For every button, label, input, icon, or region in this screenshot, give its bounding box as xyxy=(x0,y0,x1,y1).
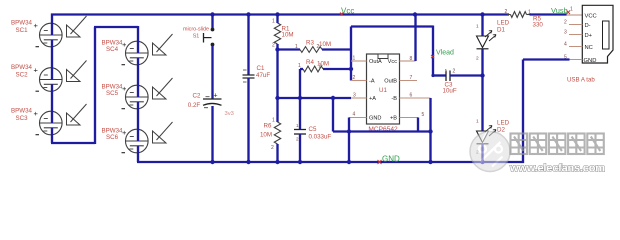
svg-text:D-: D- xyxy=(585,23,591,29)
op-amp U1 MCP6542 body xyxy=(367,54,400,124)
resistor R1 10M xyxy=(274,23,280,44)
capacitor C3 10uF xyxy=(446,71,450,82)
junction rail/pin8 xyxy=(413,12,417,16)
pin 6 stub xyxy=(400,97,431,99)
wire node down to R6 xyxy=(276,98,278,122)
svg-text:2: 2 xyxy=(272,43,275,49)
svg-text:Vusb: Vusb xyxy=(551,6,568,15)
junction C5/GND xyxy=(298,160,302,164)
svg-text:+B: +B xyxy=(390,116,397,122)
capacitor C5 0.033uF xyxy=(294,130,306,135)
svg-text:0.2F: 0.2F xyxy=(188,102,201,109)
wire rail down to pin8 xyxy=(414,15,416,62)
junction C5/+A xyxy=(298,96,302,100)
pin 5 stub xyxy=(400,117,419,119)
svg-text:47uF: 47uF xyxy=(256,72,270,79)
wire: SC1 top to Vcc rail corner xyxy=(51,14,53,25)
junction divider/+A row xyxy=(275,96,279,100)
wire OutA vertical x=351 xyxy=(350,27,352,81)
svg-text:3: 3 xyxy=(564,30,567,36)
svg-text:+: + xyxy=(122,128,127,137)
resistor R3 10M xyxy=(300,47,322,53)
wire C5 to GND xyxy=(299,134,301,162)
svg-text:1: 1 xyxy=(353,56,356,62)
svg-text:C5: C5 xyxy=(309,126,317,133)
svg-text:1: 1 xyxy=(476,24,479,30)
pin 2 stub xyxy=(351,80,367,82)
solar cell SC4 (BPW34) xyxy=(122,40,149,65)
svg-text:2: 2 xyxy=(564,20,567,26)
junction rail/R1 xyxy=(275,12,279,16)
svg-text:10M: 10M xyxy=(319,41,331,48)
junction C1/GND xyxy=(246,160,250,164)
light arrow icon for SC4 xyxy=(153,34,173,55)
wire under-IC horizontal xyxy=(333,130,431,132)
light arrow icon for SC2 xyxy=(67,61,87,82)
svg-text:OutA: OutA xyxy=(369,59,382,65)
wire R4/C5 vertical xyxy=(299,71,301,130)
svg-text:NC: NC xyxy=(585,45,593,51)
svg-text:R6: R6 xyxy=(264,123,272,130)
wire to C3 left xyxy=(433,74,446,76)
svg-text:C2: C2 xyxy=(193,93,201,100)
wire rail to R1 xyxy=(276,15,278,24)
junction horizontal xyxy=(428,129,432,133)
wire +A branch down x=333 xyxy=(332,98,334,132)
svg-text:2: 2 xyxy=(296,137,299,142)
svg-text:1: 1 xyxy=(295,44,298,50)
svg-text:7: 7 xyxy=(410,75,413,81)
wire: SC6 bottom to GND rail xyxy=(137,153,139,163)
svg-text:2: 2 xyxy=(271,145,274,151)
junction rail/C1 xyxy=(246,12,250,16)
pin 1 stub xyxy=(351,60,367,62)
svg-text:R4: R4 xyxy=(306,59,314,66)
pin 8 stub xyxy=(400,60,416,62)
svg-text:+A: +A xyxy=(369,96,376,102)
svg-text:2: 2 xyxy=(353,75,356,81)
wire: SC2-SC3 xyxy=(51,91,53,112)
wire: riser x=95 xyxy=(94,27,96,144)
svg-text:SC1: SC1 xyxy=(15,27,28,34)
svg-text:LED: LED xyxy=(497,20,510,27)
resistor R6 10M xyxy=(274,122,280,144)
svg-text:4: 4 xyxy=(564,42,567,48)
GND bottom rail xyxy=(137,161,524,163)
wire: SC5-SC6 xyxy=(137,109,139,130)
svg-text:BPW34: BPW34 xyxy=(11,64,33,71)
svg-text:2: 2 xyxy=(476,56,479,62)
svg-text:U1: U1 xyxy=(379,87,387,94)
wire rail to D1 xyxy=(481,15,483,37)
junction C2/GND xyxy=(210,160,214,164)
junction pin4/GND xyxy=(347,160,351,164)
svg-text:BPW34: BPW34 xyxy=(11,20,33,27)
solar cell SC2 (BPW34) xyxy=(34,66,63,92)
svg-text:VCC: VCC xyxy=(585,13,597,19)
svg-text:GND: GND xyxy=(369,116,381,122)
svg-text:10M: 10M xyxy=(260,132,272,139)
pin stub USB VCC xyxy=(567,14,583,16)
svg-text:SC3: SC3 xyxy=(15,115,28,122)
svg-text:+: + xyxy=(34,66,39,75)
top rail segment after R5 to USB xyxy=(530,13,567,15)
svg-text:0.033uF: 0.033uF xyxy=(309,134,332,141)
wire R3 to OutA vertical xyxy=(322,48,351,50)
wire R4 to vertical xyxy=(323,68,351,70)
svg-text:1: 1 xyxy=(476,119,479,125)
svg-text:www.elecfans.com: www.elecfans.com xyxy=(509,163,605,175)
wire C2 to GND rail xyxy=(211,106,213,162)
svg-text:SC2: SC2 xyxy=(15,71,28,78)
wire pin4 down xyxy=(348,118,350,163)
svg-text:+: + xyxy=(34,21,39,30)
wire: SC1-SC2 xyxy=(51,47,53,69)
watermark logo xyxy=(470,130,510,172)
junction rail/LED D1 xyxy=(480,12,484,16)
svg-text:SC5: SC5 xyxy=(106,90,119,97)
solar cell SC3 (BPW34) xyxy=(34,109,63,135)
switch S1 micro-slide xyxy=(204,28,215,47)
wire: SC4 top drop xyxy=(137,26,139,42)
svg-text:USB A tab: USB A tab xyxy=(567,77,595,84)
watermark chinese text xyxy=(511,134,604,155)
solar cell SC1 (BPW34) xyxy=(34,21,63,47)
wire switch to C2 xyxy=(211,46,213,100)
svg-text:D2: D2 xyxy=(497,127,505,134)
USB A tab connector J1 xyxy=(582,5,613,63)
svg-text:2: 2 xyxy=(505,9,508,15)
svg-text:SC4: SC4 xyxy=(106,46,119,53)
wire pin6 down to GND xyxy=(429,98,431,162)
svg-text:+: + xyxy=(34,109,39,118)
svg-text:OutB: OutB xyxy=(384,79,397,85)
wire R1 to node xyxy=(276,44,278,50)
svg-text:+: + xyxy=(122,84,127,93)
wire rail to C1 xyxy=(247,15,249,76)
solar cell SC6 (BPW34) xyxy=(122,128,149,153)
wire C5 node to R4 xyxy=(299,69,301,71)
svg-text:8: 8 xyxy=(410,56,413,62)
light arrow icon for SC3 xyxy=(67,104,87,125)
light arrow icon for SC1 xyxy=(67,16,87,37)
svg-text:10uF: 10uF xyxy=(443,88,457,95)
svg-text:1: 1 xyxy=(528,10,531,16)
junction R4/vertical xyxy=(349,67,353,71)
svg-text:micro-slide: micro-slide xyxy=(183,27,209,33)
junction pin4/horizontal xyxy=(347,129,351,133)
svg-text:330: 330 xyxy=(533,22,544,29)
svg-text:5: 5 xyxy=(422,112,425,118)
svg-text:6: 6 xyxy=(410,93,413,99)
capacitor C2 0.2F (polarized) xyxy=(203,93,222,108)
svg-text:2: 2 xyxy=(453,69,456,75)
wire C3 right to LED column xyxy=(450,74,483,76)
wire rail to switch S1 xyxy=(211,15,213,29)
wire D2 to GND rail xyxy=(481,144,483,162)
svg-text:1: 1 xyxy=(298,63,301,69)
svg-text:BPW34: BPW34 xyxy=(11,108,33,115)
solar cell SC5 (BPW34) xyxy=(122,84,149,109)
svg-text:1: 1 xyxy=(296,123,299,128)
svg-text:10M: 10M xyxy=(282,32,294,39)
wire +A row xyxy=(278,97,352,99)
wire: bottom link to column 2 xyxy=(51,142,95,144)
svg-text:1: 1 xyxy=(445,69,448,75)
svg-text:+: + xyxy=(214,93,218,100)
junction on rail at switch xyxy=(210,12,214,16)
USB pin names xyxy=(584,13,597,64)
svg-text:1: 1 xyxy=(272,118,275,124)
svg-text:Vcc: Vcc xyxy=(388,59,398,65)
capacitor C1 47uF xyxy=(243,70,255,82)
junction D2/GND xyxy=(480,160,484,164)
junction pin6/GND xyxy=(428,160,432,164)
node R1/R3 junction xyxy=(275,47,279,51)
svg-text:1: 1 xyxy=(570,7,573,13)
svg-text:1: 1 xyxy=(272,19,275,25)
svg-text:GND: GND xyxy=(584,58,597,64)
svg-text:3: 3 xyxy=(353,93,356,99)
svg-text:D1: D1 xyxy=(497,27,505,34)
junction R6/GND xyxy=(275,160,279,164)
resistor R5 330 xyxy=(507,14,511,16)
wire: SC4-SC5 xyxy=(137,65,139,86)
LED D1 xyxy=(477,31,497,49)
pin 3 stub xyxy=(351,97,367,99)
junction C3 corner xyxy=(431,74,434,77)
svg-text:-A: -A xyxy=(369,79,375,85)
wire C1 to GND rail xyxy=(247,78,249,162)
LED D2 xyxy=(477,126,497,144)
wire: top link to SC4 xyxy=(94,26,138,28)
IC pin names xyxy=(369,59,397,121)
wire USB GND to rail xyxy=(523,58,570,60)
light arrow icon for SC5 xyxy=(153,78,173,99)
wire: SC3 bottom down xyxy=(51,135,53,144)
junction branch/+A xyxy=(331,96,335,100)
svg-text:Vlead: Vlead xyxy=(436,50,454,57)
svg-text:10M: 10M xyxy=(317,61,329,68)
svg-text:SC6: SC6 xyxy=(106,134,119,141)
wire Vlead vertical down to C3 xyxy=(432,26,434,76)
pin 4 stub xyxy=(349,117,367,119)
wire node to R3 xyxy=(278,48,301,50)
light arrow icon for SC6 xyxy=(153,122,173,143)
wire OutA top horizontal to x=432 xyxy=(351,25,433,27)
svg-text:S1: S1 xyxy=(193,34,200,40)
svg-text:D+: D+ xyxy=(585,33,593,39)
svg-text:-B: -B xyxy=(391,96,397,102)
svg-text:GND: GND xyxy=(382,155,400,164)
USB pin stubs xyxy=(569,24,582,26)
svg-text:+: + xyxy=(122,40,127,49)
svg-text:R3: R3 xyxy=(306,40,314,47)
svg-text:LED: LED xyxy=(497,120,510,127)
junction C3/LED column xyxy=(480,73,484,77)
wire node down to +A row xyxy=(276,50,278,99)
wire C3 node to D2 xyxy=(481,76,483,132)
pin 7 stub xyxy=(400,80,418,82)
wire pin5 down xyxy=(417,118,419,132)
resistor R4 10M xyxy=(303,66,323,72)
svg-text:Vcc: Vcc xyxy=(341,7,354,16)
svg-text:4: 4 xyxy=(353,112,356,118)
wire R6 to GND rail xyxy=(276,144,278,162)
svg-text:3v3: 3v3 xyxy=(225,111,234,117)
Vcc top rail xyxy=(51,13,509,15)
wire D1 to C3 node xyxy=(481,49,483,76)
